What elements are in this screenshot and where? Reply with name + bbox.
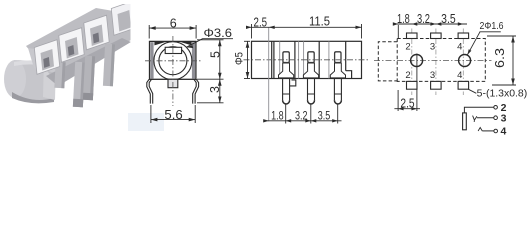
- front right leg: [195, 79, 199, 103]
- front body square: [150, 41, 196, 79]
- side dim 2.5 / 11.5: [246, 24, 361, 39]
- svg-text:Φ5: Φ5: [234, 52, 246, 65]
- svg-text:4: 4: [457, 42, 462, 53]
- photo body front face light: [28, 48, 60, 74]
- photo clip 4 (partial, right edge): [111, 1, 136, 36]
- front corner wedge right: [181, 42, 192, 45]
- schematic contact 4: [478, 128, 482, 132]
- top hole 1: [411, 55, 423, 67]
- top horizontal centerline: [374, 60, 492, 62]
- front notch rect: [165, 47, 181, 53]
- side window 1: [283, 52, 289, 63]
- side right step: [346, 71, 352, 79]
- front dim 6: [149, 25, 196, 39]
- side horizontal centerline: [244, 59, 370, 61]
- front inner circle: [159, 47, 187, 75]
- top dim 6.3: [487, 36, 516, 85]
- front outer circle: [154, 42, 192, 80]
- front vertical centerline: [172, 36, 174, 106]
- side barrel separator lines: [271, 41, 273, 78]
- svg-text:2Φ1.6: 2Φ1.6: [480, 20, 504, 32]
- svg-text:2: 2: [405, 70, 410, 81]
- side terminal 3 inner base: [330, 63, 345, 78]
- schematic terminal circle 2: [494, 106, 498, 110]
- svg-text:6.3: 6.3: [493, 48, 507, 68]
- photo leg 2: [73, 62, 85, 107]
- svg-text:3.2: 3.2: [295, 109, 308, 123]
- top hole1 extension line: [416, 54, 418, 112]
- side dim Φ5: [244, 41, 250, 78]
- svg-text:3.2: 3.2: [417, 12, 430, 26]
- photo barrel cylinder: [12, 60, 56, 102]
- side leg 3: [334, 79, 341, 100]
- svg-text:3: 3: [208, 86, 222, 93]
- side body rect: [252, 41, 362, 78]
- svg-text:5.6: 5.6: [164, 108, 182, 122]
- side internal dark lines: [294, 41, 296, 78]
- top pad centerlines (gray): [412, 29, 464, 96]
- side window 3: [335, 52, 341, 63]
- side leg 2 tip: [308, 100, 315, 104]
- schematic wire pin4: [482, 130, 494, 132]
- front left leg: [147, 79, 151, 103]
- top pin numbers upper: [405, 42, 462, 81]
- svg-text:3: 3: [430, 42, 435, 53]
- schematic contact 3: [473, 116, 477, 122]
- side dim 1.8 3.2 3.5: [264, 105, 342, 124]
- side leg 2: [308, 79, 315, 100]
- svg-text:5-(1.3x0.8): 5-(1.3x0.8): [477, 88, 528, 99]
- front dims 5 and 3 (right): [197, 40, 224, 103]
- schematic wire pin2: [464, 107, 493, 113]
- side window 2: [308, 52, 314, 63]
- top hole 2: [459, 55, 471, 67]
- side internal gray lines: [279, 41, 281, 78]
- top dim 1.8 3.2 3.5: [395, 24, 468, 38]
- svg-text:4: 4: [500, 126, 506, 138]
- top dim 2.5: [394, 90, 420, 111]
- schematic wire pin3: [477, 117, 494, 119]
- schematic terminal circle 4: [494, 129, 498, 133]
- top dashed body outline: [378, 39, 485, 83]
- front dim 5.6: [151, 105, 195, 123]
- side leg 3 tip: [334, 100, 341, 104]
- svg-text:3.5: 3.5: [318, 109, 331, 123]
- side gray extension line: [268, 27, 270, 121]
- photo clip 1 (left): [34, 40, 59, 75]
- front gray band right: [192, 42, 195, 78]
- svg-text:11.5: 11.5: [309, 15, 330, 29]
- side terminal 2 inner base: [303, 63, 318, 78]
- side leg 1: [283, 79, 342, 100]
- side terminal 1 inner base: [279, 63, 294, 78]
- svg-text:6: 6: [170, 16, 177, 30]
- svg-text:3.5: 3.5: [441, 12, 456, 26]
- front gray band left: [150, 42, 153, 78]
- photo clip 3 (right): [84, 15, 109, 50]
- svg-text:4: 4: [457, 70, 462, 81]
- svg-text:2.5: 2.5: [254, 15, 268, 29]
- svg-text:3: 3: [430, 70, 435, 81]
- svg-text:2: 2: [405, 42, 410, 53]
- photo body lower shadow strip: [46, 38, 131, 86]
- front center tab: [168, 79, 178, 87]
- front horizontal centerline: [145, 60, 201, 62]
- top pads upper row: [407, 33, 469, 89]
- side leg 1 tip: [283, 100, 290, 104]
- svg-text:3: 3: [501, 112, 507, 124]
- photo leg 3: [83, 56, 95, 100]
- photo clip 2 (middle): [59, 28, 84, 63]
- photo leg 1: [54, 62, 65, 88]
- photo leg 4: [103, 44, 115, 86]
- svg-text:2.5: 2.5: [400, 97, 414, 111]
- schematic terminal circle 3: [494, 116, 498, 120]
- front corner wedge left: [154, 42, 165, 45]
- top pads lower row: [407, 81, 418, 89]
- svg-text:1.8: 1.8: [397, 12, 410, 26]
- svg-text:1.8: 1.8: [271, 109, 284, 123]
- photo body main mass: [26, 8, 131, 84]
- svg-text:Φ3.6: Φ3.6: [204, 26, 233, 40]
- schematic plug body: [463, 113, 467, 130]
- svg-text:5: 5: [208, 51, 222, 58]
